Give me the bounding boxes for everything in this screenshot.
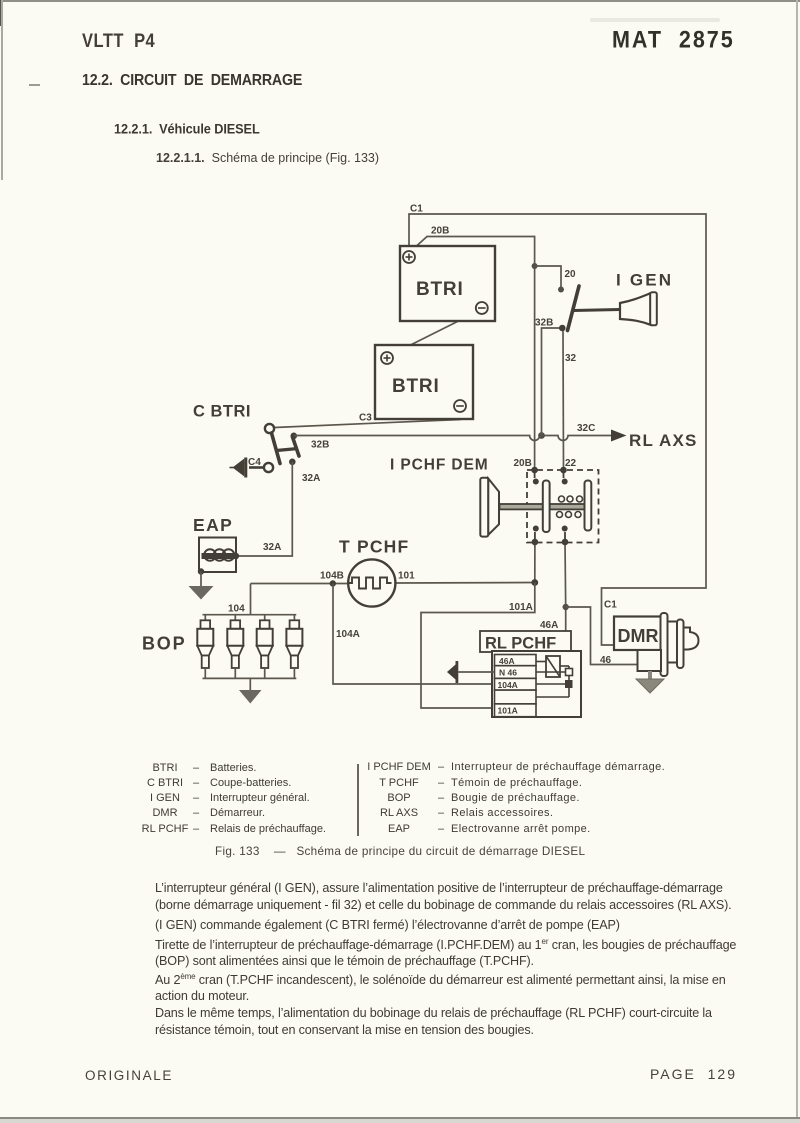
ground N46 (RL PCHF) xyxy=(447,661,495,683)
node junction 46A xyxy=(563,604,569,610)
ground (DMR) xyxy=(636,671,664,693)
wire C1 (battery + to starter main feed) xyxy=(409,214,706,645)
node 104 label xyxy=(228,604,245,615)
wire 46A (I PCHF DEM to RL PCHF coil) xyxy=(564,542,567,661)
node 32B label xyxy=(311,440,329,451)
svg-text:32C: 32C xyxy=(577,423,595,434)
footer xyxy=(85,1068,173,1083)
svg-text:BTRI: BTRI xyxy=(416,279,464,300)
ground (EAP) xyxy=(189,572,214,600)
svg-text:104A: 104A xyxy=(336,629,360,640)
svg-text:RL PCHF: RL PCHF xyxy=(485,635,556,653)
wire 32A (C BTRI to EAP) xyxy=(237,462,292,556)
legend xyxy=(0,0,1,1)
svg-text:I PCHF DEM: I PCHF DEM xyxy=(390,457,489,474)
wire 32 (I GEN to I PCHF DEM) xyxy=(562,331,565,470)
svg-text:DMR: DMR xyxy=(618,626,659,646)
node 20 label xyxy=(565,269,577,280)
node 46 label xyxy=(600,655,612,666)
svg-text:32A: 32A xyxy=(302,473,320,484)
svg-text:C4: C4 xyxy=(248,457,261,468)
svg-text:EAP: EAP xyxy=(193,515,233,535)
svg-text:C BTRI: C BTRI xyxy=(193,403,251,421)
node 104A label xyxy=(336,629,360,640)
svg-text:32B: 32B xyxy=(311,440,329,451)
switch C BTRI (coupe-batteries) xyxy=(193,403,299,473)
svg-text:104A: 104A xyxy=(498,680,518,690)
wire 20B (battery + to I PCHF DEM) xyxy=(411,237,535,471)
glow plugs BOP xyxy=(142,615,296,679)
svg-text:22: 22 xyxy=(565,458,577,469)
caption xyxy=(215,845,585,858)
svg-text:T PCHF: T PCHF xyxy=(339,537,409,557)
node junction 20B/20 xyxy=(532,263,538,269)
header xyxy=(82,30,155,52)
node 32A dot (at C BTRI) xyxy=(289,459,296,466)
svg-text:N 46: N 46 xyxy=(499,668,517,678)
node C1 label (at DMR) xyxy=(604,600,617,611)
glow plug 4 xyxy=(286,615,302,679)
ground (BOP) xyxy=(239,678,262,703)
switch I GEN (interrupteur general) xyxy=(559,271,673,332)
svg-text:104: 104 xyxy=(228,604,245,615)
svg-text:101A: 101A xyxy=(509,602,533,613)
wire 104 (to BOP bus) xyxy=(250,584,252,616)
wire 46 (to DMR solenoid) xyxy=(566,607,638,665)
svg-text:104B: 104B xyxy=(320,571,344,582)
node C1 label (top) xyxy=(410,204,423,215)
svg-text:C3: C3 xyxy=(359,413,372,424)
svg-text:101: 101 xyxy=(398,571,415,582)
svg-text:32B: 32B xyxy=(535,318,553,329)
wire BTRI1- to BTRI2+ (series link) xyxy=(392,312,478,355)
switch I PCHF DEM (key/pull switch) xyxy=(480,467,598,546)
glow plug 1 xyxy=(197,615,213,679)
svg-text:C1: C1 xyxy=(604,600,617,611)
node 32A label (at EAP) xyxy=(263,542,281,553)
svg-text:32A: 32A xyxy=(263,542,281,553)
wire 20 (to I GEN fixed contact) xyxy=(535,266,561,290)
node 104B label xyxy=(320,571,344,582)
battery BTRI 2 xyxy=(375,345,473,419)
svg-text:101A: 101A xyxy=(498,706,518,716)
node RL AXS label xyxy=(629,431,698,450)
svg-text:46: 46 xyxy=(600,655,612,666)
node C3 label xyxy=(359,413,372,424)
arrow to RL AXS xyxy=(611,430,627,442)
node 32B label (at I GEN) xyxy=(535,318,553,329)
node 101A label xyxy=(509,602,533,613)
lamp T PCHF (preheat indicator) xyxy=(339,537,409,607)
starter DMR xyxy=(614,613,699,676)
node junction 104B xyxy=(330,580,336,586)
battery BTRI 1 xyxy=(400,246,495,321)
node 20B label (at I PCHF DEM) xyxy=(514,458,532,469)
node 101 label xyxy=(398,571,415,582)
wire 32B (I GEN to 32C junction) xyxy=(542,328,563,436)
node junction 101/101A xyxy=(531,579,538,586)
switch I PCHF DEM label xyxy=(390,457,489,474)
wire 104B/101 (preheat feed line) xyxy=(251,583,535,584)
svg-text:C1: C1 xyxy=(410,204,423,215)
svg-text:BOP: BOP xyxy=(142,634,186,654)
node junction 32C xyxy=(538,432,545,439)
svg-text:I GEN: I GEN xyxy=(616,271,673,290)
node 46A label xyxy=(540,620,558,631)
svg-text:46A: 46A xyxy=(499,656,515,666)
svg-text:BTRI: BTRI xyxy=(392,376,440,397)
wire 101A (to RL PCHF) xyxy=(421,583,535,709)
node 32B dot (at C BTRI) xyxy=(291,433,298,440)
glow plug 2 xyxy=(227,615,243,679)
capacitor C4 (antiparasite to ground) xyxy=(230,457,265,478)
glow plug 3 xyxy=(257,615,273,679)
relay RL PCHF body xyxy=(492,651,581,717)
page edge artifacts xyxy=(0,0,800,2)
relay RL PCHF label box xyxy=(480,631,571,653)
svg-text:46A: 46A xyxy=(540,620,558,631)
svg-text:20B: 20B xyxy=(431,226,449,237)
paragraphs xyxy=(0,0,1,1)
svg-text:20: 20 xyxy=(565,269,577,280)
svg-text:32: 32 xyxy=(565,353,577,364)
wire C3 (BTRI2 - to C BTRI) xyxy=(275,413,460,428)
node 22 label (at I PCHF DEM) xyxy=(565,458,577,469)
svg-text:RL AXS: RL AXS xyxy=(629,431,698,450)
node 32 label xyxy=(565,353,577,364)
node 32C label xyxy=(577,423,595,434)
wire (I PCHF DEM to T PCHF line) xyxy=(534,542,536,583)
node 20B label (top) xyxy=(431,226,449,237)
wire 104A (to RL PCHF) xyxy=(333,584,494,685)
solenoid EAP (electrovanne arret pompe) xyxy=(193,515,239,575)
wire 32B/32C (to RL AXS, hops over verticals) xyxy=(294,436,611,441)
node 32A label (upper) xyxy=(302,473,320,484)
svg-text:20B: 20B xyxy=(514,458,532,469)
node 20 contact dot xyxy=(558,287,564,293)
